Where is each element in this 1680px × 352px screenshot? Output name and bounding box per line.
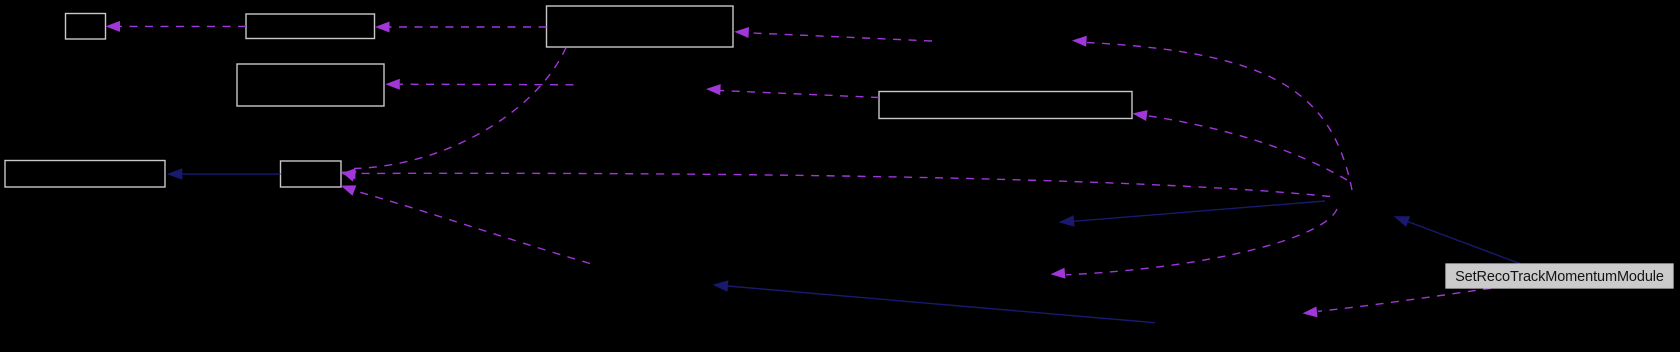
inheritance edge B1 hub-> (left) arrowhead xyxy=(1059,215,1075,227)
usage edge E7 box3->box7 (arc) line xyxy=(354,48,566,169)
usage edge E5 box5-> (mid-air) arrowhead xyxy=(706,84,721,95)
inheritance edge B3 ->mid (long) line xyxy=(727,286,1155,323)
inheritance edge B2 SetRecoTrackMomentumModule->hub line xyxy=(1408,222,1522,265)
usage edge E10 SetRecoTrackMomentumModule-> (bottom) arrowhead xyxy=(1303,307,1318,318)
svg-text:SetRecoTrackMomentumModule: SetRecoTrackMomentumModule xyxy=(1455,269,1664,285)
usage edge E4 ->box4 line xyxy=(400,83,574,86)
inheritance edge B0 box7->box6 line xyxy=(182,173,281,175)
usage edge E6 hub->box5 (curved) arrowhead xyxy=(1133,110,1148,121)
usage edge E3b from hub (curved) arrowhead xyxy=(1072,36,1087,47)
usage edge E3a ->box3 arrowhead xyxy=(734,27,749,38)
class node box6 (bottom-left wide) xyxy=(5,161,165,188)
usage edge E2 box3->box2 line xyxy=(390,26,547,28)
class node box2 xyxy=(246,14,375,39)
usage edge E1 box2->box1 arrowhead xyxy=(106,21,121,32)
usage edge Elong hub->box7 arrowhead xyxy=(341,168,356,179)
usage edge E6 hub->box5 (curved) line xyxy=(1148,116,1347,180)
usage edge E7 box3->box7 (arc) arrowhead xyxy=(341,171,357,181)
usage edge E10 SetRecoTrackMomentumModule-> (bottom) line xyxy=(1318,288,1491,311)
inheritance edge B0 box7->box6 arrowhead xyxy=(167,168,183,180)
usage edge E5 box5-> (mid-air) line xyxy=(720,91,880,98)
usage edge Elong hub->box7 line xyxy=(355,173,1330,196)
usage edge E9 hub-> (down-left) arrowhead xyxy=(1051,268,1066,279)
inheritance edge B2 SetRecoTrackMomentumModule->hub arrowhead xyxy=(1394,216,1411,227)
usage edge E8 ->box7 corner arrowhead xyxy=(341,185,357,195)
usage edge E4 ->box4 arrowhead xyxy=(385,79,400,90)
class node box7 (small) xyxy=(281,161,342,187)
class node SetRecoTrackMomentumModule (filled) xyxy=(1446,264,1673,288)
usage edge E3b from hub (curved) line xyxy=(1087,43,1352,191)
inheritance edge B3 ->mid (long) arrowhead xyxy=(713,280,729,292)
class node box3 (top center large) xyxy=(547,6,734,47)
usage edge E8 ->box7 corner line xyxy=(356,191,591,264)
class node box1 (top-left small) xyxy=(66,14,106,40)
usage edge E2 box3->box2 arrowhead xyxy=(375,22,390,33)
class node box4 (two-line) xyxy=(237,64,384,106)
usage edge E9 hub-> (down-left) line xyxy=(1066,209,1337,275)
inheritance edge B1 hub-> (left) line xyxy=(1074,201,1326,221)
usage edge E3a ->box3 line xyxy=(748,33,932,41)
class node box5 (wide) xyxy=(879,92,1132,119)
usage edge E1 box2->box1 line xyxy=(119,25,246,27)
